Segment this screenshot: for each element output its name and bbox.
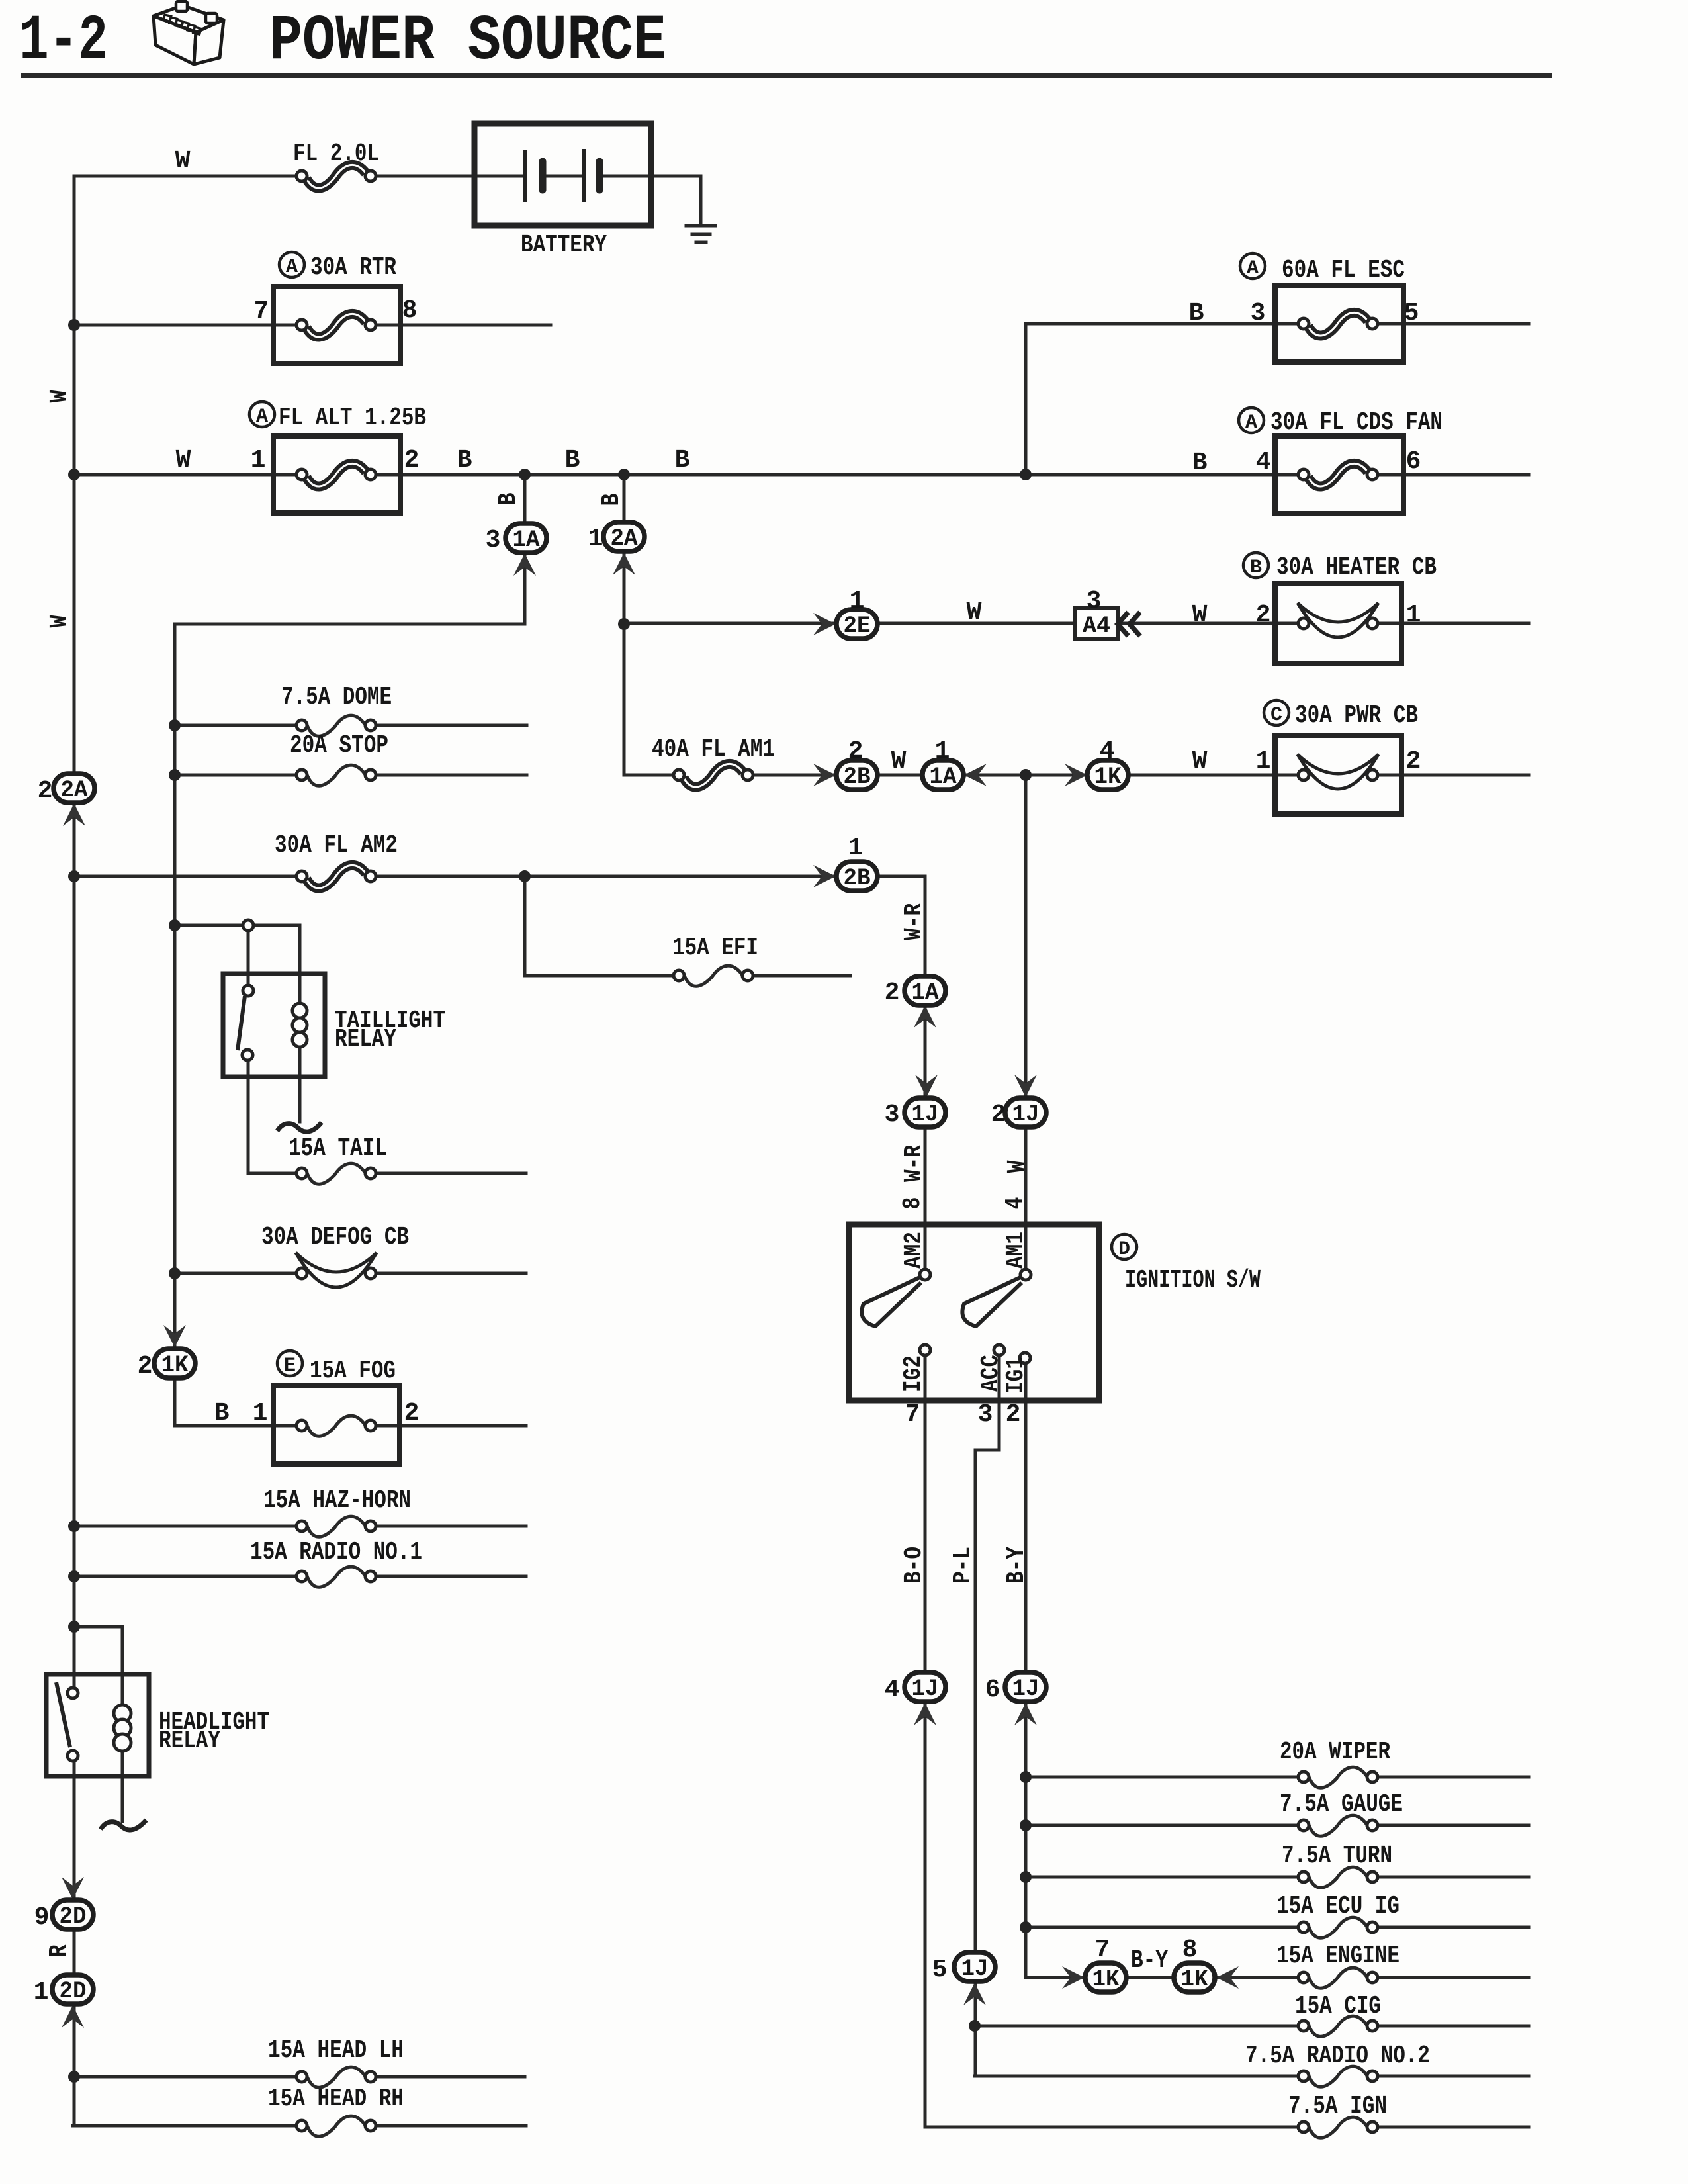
svg-text:7.5A RADIO NO.2: 7.5A RADIO NO.2	[1245, 2042, 1430, 2070]
svg-text:A: A	[1247, 257, 1259, 280]
svg-text:30A FL CDS FAN: 30A FL CDS FAN	[1270, 408, 1443, 437]
svg-text:1: 1	[34, 1978, 49, 2007]
svg-text:2D: 2D	[60, 1903, 87, 1930]
svg-text:3: 3	[1251, 299, 1266, 328]
svg-text:1: 1	[588, 525, 603, 553]
svg-text:W: W	[967, 598, 982, 627]
svg-text:1: 1	[253, 1399, 268, 1428]
svg-text:15A ECU IG: 15A ECU IG	[1276, 1892, 1399, 1921]
svg-text:A: A	[256, 406, 268, 428]
svg-text:1: 1	[1406, 601, 1421, 629]
svg-text:30A RTR: 30A RTR	[310, 253, 396, 282]
svg-text:R: R	[45, 1944, 73, 1957]
svg-text:1K: 1K	[1094, 764, 1122, 790]
svg-text:3: 3	[1087, 587, 1102, 615]
svg-text:7: 7	[254, 297, 269, 326]
svg-text:2B: 2B	[844, 764, 871, 790]
svg-text:ACC: ACC	[977, 1355, 1005, 1392]
svg-text:8: 8	[1182, 1936, 1198, 1964]
svg-text:30A HEATER CB: 30A HEATER CB	[1276, 553, 1437, 582]
svg-text:8: 8	[402, 296, 418, 325]
svg-text:RELAY: RELAY	[335, 1025, 396, 1054]
svg-text:15A CIG: 15A CIG	[1295, 1992, 1381, 2021]
svg-text:1J: 1J	[912, 1676, 939, 1702]
svg-text:B: B	[598, 494, 626, 506]
svg-text:B: B	[1192, 449, 1208, 477]
svg-text:4: 4	[1001, 1197, 1030, 1210]
svg-text:RELAY: RELAY	[159, 1727, 220, 1755]
svg-text:POWER SOURCE: POWER SOURCE	[269, 5, 666, 78]
svg-text:IGNITION S/W: IGNITION S/W	[1125, 1266, 1261, 1295]
svg-text:30A PWR CB: 30A PWR CB	[1295, 702, 1418, 730]
svg-text:A4: A4	[1083, 613, 1110, 639]
svg-text:30A FL AM2: 30A FL AM2	[275, 831, 398, 860]
svg-text:2A: 2A	[611, 525, 638, 552]
svg-text:7: 7	[1095, 1936, 1110, 1964]
svg-text:2: 2	[1406, 747, 1421, 776]
svg-text:2D: 2D	[60, 1978, 87, 2005]
svg-text:1K: 1K	[1092, 1966, 1120, 1993]
svg-text:1A: 1A	[930, 764, 957, 790]
svg-text:B: B	[675, 446, 690, 475]
svg-text:B-O: B-O	[900, 1547, 928, 1584]
svg-text:W-R: W-R	[900, 903, 928, 940]
svg-text:P-L: P-L	[949, 1547, 977, 1584]
svg-text:3: 3	[978, 1400, 993, 1429]
svg-text:40A FL AM1: 40A FL AM1	[652, 735, 775, 764]
svg-text:30A DEFOG CB: 30A DEFOG CB	[261, 1223, 409, 1251]
svg-text:C: C	[1270, 704, 1282, 727]
svg-text:1J: 1J	[912, 1101, 939, 1128]
svg-text:1J: 1J	[1012, 1101, 1040, 1128]
svg-text:2E: 2E	[844, 613, 871, 639]
svg-text:B: B	[1250, 557, 1262, 579]
svg-text:B: B	[494, 493, 523, 506]
svg-text:B-Y: B-Y	[1002, 1547, 1031, 1584]
svg-text:2B: 2B	[844, 865, 871, 891]
svg-text:60A FL ESC: 60A FL ESC	[1282, 256, 1405, 285]
svg-text:BATTERY: BATTERY	[521, 231, 607, 259]
svg-text:2A: 2A	[61, 777, 88, 803]
svg-text:15A HEAD RH: 15A HEAD RH	[268, 2085, 404, 2113]
svg-text:7.5A DOME: 7.5A DOME	[281, 683, 392, 711]
svg-text:20A WIPER: 20A WIPER	[1280, 1738, 1390, 1766]
svg-text:B-Y: B-Y	[1131, 1946, 1168, 1975]
svg-text:FL 2.0L: FL 2.0L	[293, 140, 379, 168]
svg-text:2: 2	[138, 1352, 153, 1381]
svg-text:W: W	[176, 446, 191, 475]
svg-text:AM1: AM1	[1002, 1232, 1030, 1269]
svg-text:1: 1	[251, 446, 266, 475]
svg-text:1: 1	[850, 587, 865, 615]
svg-text:3: 3	[486, 526, 501, 555]
svg-text:1A: 1A	[513, 527, 540, 553]
svg-text:8: 8	[899, 1197, 927, 1210]
svg-text:2: 2	[1256, 601, 1271, 629]
svg-text:2: 2	[885, 979, 900, 1007]
svg-text:E: E	[284, 1355, 296, 1377]
svg-text:7.5A TURN: 7.5A TURN	[1282, 1842, 1392, 1870]
svg-text:2: 2	[1006, 1400, 1021, 1429]
svg-text:6: 6	[985, 1676, 1000, 1704]
svg-text:2: 2	[404, 1399, 420, 1428]
svg-text:FL ALT 1.25B: FL ALT 1.25B	[279, 404, 426, 432]
svg-text:1K: 1K	[161, 1352, 189, 1379]
svg-text:15A TAIL: 15A TAIL	[289, 1134, 387, 1163]
svg-text:B: B	[214, 1399, 230, 1428]
svg-text:2: 2	[991, 1101, 1006, 1129]
svg-text:W: W	[1192, 747, 1208, 776]
svg-text:7.5A GAUGE: 7.5A GAUGE	[1280, 1790, 1403, 1819]
svg-text:1K: 1K	[1181, 1966, 1208, 1993]
svg-text:W: W	[1192, 601, 1208, 629]
svg-text:4: 4	[1100, 737, 1115, 766]
svg-text:1: 1	[1256, 747, 1271, 776]
svg-text:W: W	[1003, 1160, 1032, 1173]
svg-text:4: 4	[885, 1676, 900, 1704]
svg-text:15A ENGINE: 15A ENGINE	[1276, 1942, 1399, 1970]
svg-text:B: B	[565, 446, 580, 475]
svg-text:3: 3	[885, 1101, 900, 1129]
svg-text:W: W	[891, 747, 907, 776]
svg-text:D: D	[1118, 1238, 1130, 1261]
svg-text:4: 4	[1256, 448, 1271, 477]
svg-text:2: 2	[848, 737, 864, 766]
svg-text:IG1: IG1	[1002, 1357, 1030, 1394]
svg-text:B: B	[1189, 299, 1204, 328]
svg-text:A: A	[1245, 412, 1257, 434]
svg-text:15A RADIO NO.1: 15A RADIO NO.1	[250, 1538, 422, 1567]
svg-text:IG2: IG2	[899, 1355, 928, 1392]
svg-text:5: 5	[1404, 299, 1419, 328]
svg-text:1: 1	[848, 834, 864, 862]
svg-text:1A: 1A	[912, 979, 939, 1006]
svg-text:15A HEAD LH: 15A HEAD LH	[268, 2036, 404, 2065]
svg-text:1J: 1J	[961, 1956, 989, 1982]
svg-text:1J: 1J	[1012, 1676, 1040, 1702]
svg-text:5: 5	[932, 1956, 948, 1984]
svg-text:W: W	[175, 147, 191, 175]
svg-text:W: W	[46, 390, 74, 402]
svg-text:B: B	[457, 446, 472, 475]
svg-text:7: 7	[905, 1400, 920, 1429]
svg-text:20A STOP: 20A STOP	[290, 731, 388, 760]
svg-text:A: A	[286, 256, 298, 279]
svg-text:7.5A IGN: 7.5A IGN	[1288, 2092, 1387, 2120]
svg-text:1-2: 1-2	[19, 5, 108, 78]
svg-text:W: W	[46, 615, 74, 627]
svg-text:15A FOG: 15A FOG	[310, 1357, 396, 1385]
svg-text:W-R: W-R	[900, 1145, 928, 1182]
svg-text:AM2: AM2	[900, 1232, 928, 1269]
svg-text:15A HAZ-HORN: 15A HAZ-HORN	[263, 1486, 411, 1515]
svg-text:2: 2	[38, 777, 53, 805]
svg-text:6: 6	[1406, 447, 1421, 476]
svg-text:9: 9	[34, 1903, 50, 1932]
svg-text:2: 2	[404, 446, 420, 475]
svg-text:1: 1	[935, 737, 950, 766]
svg-text:15A EFI: 15A EFI	[672, 934, 758, 962]
